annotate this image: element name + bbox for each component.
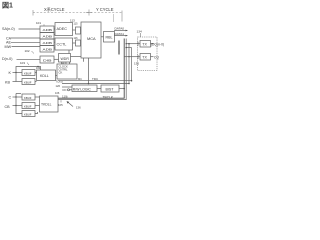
- wire C loop to CBUF3: [16, 94, 22, 114]
- clock buffer CBUF1: [22, 94, 35, 100]
- svg-text:ADEC: ADEC: [57, 27, 68, 31]
- junction dot: [128, 83, 130, 85]
- wire DATA1 with arrow: [114, 35, 128, 37]
- wire ADB2 to ADEC: [54, 34, 55, 36]
- svg-text:MW: MW: [5, 45, 12, 49]
- row decoder strip upper: [76, 27, 81, 34]
- svg-text:TKDLL: TKDLL: [41, 103, 52, 107]
- wire into RW logic with bubble: [70, 89, 73, 91]
- svg-text:DO: DO: [63, 88, 67, 92]
- svg-text:Y CYCLE: Y CYCLE: [96, 7, 114, 12]
- svg-text:CQ: CQ: [154, 55, 159, 59]
- wire K loop: [16, 67, 41, 82]
- row decoder strip lower: [76, 40, 81, 46]
- address buffer ADB4: [40, 46, 54, 53]
- svg-text:KDLL: KDLL: [40, 74, 49, 78]
- junction dot: [128, 56, 129, 57]
- svg-text:KBUF: KBUF: [24, 71, 32, 75]
- wire TCKO column: [131, 48, 133, 81]
- wire AE to ADB3: [11, 41, 40, 43]
- svg-text:115: 115: [74, 23, 79, 26]
- wire CBUF1 to TKDLL: [35, 96, 40, 98]
- clock DLL TKDLL: [40, 96, 59, 112]
- wire ADEC to MCA: [73, 29, 76, 31]
- leader arrow 136: [67, 102, 73, 107]
- junction dot: [123, 88, 125, 90]
- wire ADB1 to ADEC: [54, 28, 55, 30]
- svg-text:TBCLK: TBCLK: [103, 96, 114, 100]
- junction dot: [131, 80, 133, 82]
- svg-text:126: 126: [56, 84, 61, 88]
- read buffer RBL: [104, 32, 115, 43]
- svg-text:KBUF: KBUF: [24, 96, 32, 100]
- logic block R/W LOGIC: [72, 85, 97, 92]
- clock buffer CBUF3: [22, 111, 35, 117]
- wire branch stub: [126, 47, 131, 49]
- wire SA to ADB1: [19, 28, 41, 30]
- wire RW logic to BIST: [97, 88, 101, 90]
- svg-text:KBUF: KBUF: [24, 80, 32, 84]
- junction dot: [128, 43, 130, 45]
- svg-text:MC: MC: [78, 77, 82, 81]
- wire KB to KBUF2: [13, 81, 23, 83]
- svg-text:MCA: MCA: [87, 36, 96, 41]
- svg-text:K: K: [9, 71, 12, 75]
- wire DIB to WDR: [54, 58, 59, 60]
- svg-text:105: 105: [58, 103, 63, 107]
- clock buffer CBUF2: [22, 103, 35, 109]
- wire WDR to MCA: [71, 56, 82, 58]
- svg-text:CK: CK: [59, 71, 63, 75]
- clock control box: [57, 64, 77, 79]
- wire ADB3 to CCTL: [54, 41, 55, 43]
- bus feedback line left: [58, 39, 124, 99]
- wire FX input: [126, 43, 140, 45]
- svg-text:TX: TX: [142, 56, 147, 60]
- svg-text:135: 135: [134, 61, 139, 65]
- svg-text:ADB: ADB: [43, 48, 53, 52]
- control block CCTL: [55, 38, 73, 50]
- svg-text:DATA0: DATA0: [115, 27, 125, 31]
- svg-text:X系CYCLE: X系CYCLE: [44, 6, 65, 12]
- leader tick under Y CYCLE: [113, 14, 115, 22]
- svg-text:RBL: RBL: [106, 36, 113, 40]
- svg-text:TX: TX: [142, 43, 147, 47]
- junction dot: [15, 96, 16, 97]
- svg-text:ADB: ADB: [43, 28, 53, 32]
- address buffer ADB3: [40, 39, 54, 46]
- svg-text:116: 116: [74, 37, 79, 40]
- clock buffer KBUF1: [22, 70, 35, 76]
- junction dot: [88, 83, 90, 85]
- wire TDC line: [62, 83, 129, 85]
- svg-text:KBUF: KBUF: [24, 112, 32, 116]
- svg-text:C: C: [9, 96, 12, 100]
- wire CBUF2 to TKDLL: [35, 105, 40, 107]
- svg-text:ADB: ADB: [43, 41, 53, 45]
- address buffer ADB2: [40, 33, 54, 40]
- bus feedback line right: [58, 39, 126, 100]
- output driver TX1: [140, 41, 151, 48]
- svg-text:図1: 図1: [2, 1, 13, 10]
- svg-text:TDC: TDC: [92, 77, 99, 81]
- wire C to CBUF1: [13, 96, 23, 98]
- wire TDC column: [128, 44, 130, 84]
- svg-text:CB: CB: [5, 105, 11, 109]
- svg-text:103: 103: [20, 61, 25, 65]
- stub WDR to clock control: [61, 62, 63, 64]
- svg-text:CCTL: CCTL: [57, 43, 67, 47]
- wire into RW logic: [62, 86, 72, 88]
- wire CB to CBUF2: [13, 105, 23, 107]
- svg-text:KBUF: KBUF: [24, 104, 32, 108]
- wire KBUF1 to KDLL: [35, 72, 37, 74]
- svg-text:ACK: ACK: [62, 62, 67, 65]
- svg-text:}DQ(n-0): }DQ(n-0): [151, 42, 164, 46]
- wire MCA down to TDC line: [88, 58, 90, 84]
- address buffer ADB1: [40, 26, 54, 33]
- wire CBUF3 to TKDLL: [35, 112, 38, 114]
- wire MW to ADB4: [12, 46, 41, 48]
- svg-text:110: 110: [62, 94, 67, 98]
- wire KDLL to clock control: [56, 75, 58, 77]
- dimension line (X/Y cycle spans): [33, 10, 122, 22]
- wire K to KBUF1: [13, 72, 23, 74]
- svg-text:D(n-0): D(n-0): [2, 57, 12, 61]
- wire CCTL to WDR: [68, 50, 70, 54]
- clock DLL KDLL: [37, 70, 56, 81]
- address decoder ADEC: [55, 23, 73, 36]
- wire D to DIB: [17, 58, 41, 60]
- svg-text:SA(n-0): SA(n-0): [2, 27, 15, 31]
- wire BIST to bus: [119, 88, 124, 90]
- wire CCTL to MCA: [73, 42, 76, 44]
- wire TCKO line: [58, 80, 132, 82]
- wire TX input: [124, 56, 140, 58]
- junction dot: [37, 66, 39, 68]
- wire MCA to RBL: [101, 36, 104, 38]
- svg-text:ADB: ADB: [43, 35, 53, 39]
- tick on FX input: [137, 42, 139, 46]
- wire ADB4 to CCTL: [54, 47, 55, 49]
- stub WDR to clock control 2: [69, 62, 71, 64]
- svg-text:BIST: BIST: [106, 88, 115, 92]
- svg-text:136: 136: [76, 105, 81, 109]
- svg-text:DIB: DIB: [43, 59, 52, 63]
- junction dot: [125, 47, 127, 49]
- svg-text:134: 134: [137, 30, 142, 34]
- svg-text:R/W LOGIC: R/W LOGIC: [73, 87, 92, 91]
- svg-text:104: 104: [36, 66, 41, 70]
- clock buffer KBUF2: [22, 79, 35, 85]
- junction dot: [15, 72, 16, 73]
- wire TX output: [151, 56, 154, 58]
- bus bar stub: [118, 41, 120, 55]
- echo clock driver TX2: [140, 54, 151, 61]
- wire FX output: [151, 43, 154, 45]
- svg-text:102: 102: [25, 49, 30, 53]
- svg-text:WDR: WDR: [61, 57, 70, 61]
- wire DATA0 with arrow: [114, 30, 128, 32]
- svg-text:101: 101: [36, 21, 41, 25]
- test block BIST: [101, 85, 119, 92]
- memory cell array MCA: [81, 22, 101, 58]
- IO region dashed box: [138, 37, 158, 71]
- wire CA to ADB2: [11, 37, 40, 39]
- wire KBUF2 to KDLL: [35, 81, 37, 83]
- data input buffer DIB: [40, 56, 54, 63]
- junction dot: [15, 105, 16, 106]
- write data register WDR: [59, 54, 71, 63]
- svg-text:KB: KB: [5, 81, 10, 85]
- svg-text:106: 106: [55, 91, 60, 95]
- svg-text:TCKO: TCKO: [56, 79, 63, 83]
- tick on TX input: [137, 55, 139, 59]
